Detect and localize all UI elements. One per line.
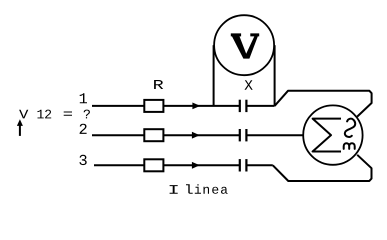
voltmeter V glyph [231, 33, 259, 58]
wire line3 left [94, 164, 240, 166]
wire voltmeter left leg [213, 45, 215, 106]
node 1 label [80, 93, 87, 103]
capacitor X3 [240, 159, 247, 171]
meter 3-phase squiggle (tilde) [345, 119, 355, 137]
node 3 label [79, 155, 86, 165]
energy meter M1 circle [303, 105, 362, 164]
wire line1 right run to meter (diagonal, top, corner) [275, 91, 372, 117]
capacitor X1 [240, 100, 247, 112]
arrow V12 direction (up) [17, 119, 23, 136]
wire line2 right (to meter) [246, 134, 303, 136]
resistor R3 [144, 159, 163, 171]
wire line3 mid [246, 164, 272, 166]
wire line1 mid (capacitor to voltmeter right leg) [246, 105, 274, 107]
meter sigma symbol [313, 119, 341, 152]
label X [245, 80, 253, 90]
current arrow line1 [192, 103, 200, 110]
wire line1 left [92, 105, 240, 107]
current arrow line2 [192, 132, 200, 139]
wire voltmeter right leg [274, 45, 276, 106]
resistor R1 [144, 100, 163, 112]
wire line3 right run to meter (diagonal, bottom, corner) [273, 155, 372, 181]
meter 3-phase squiggle (m shape) [344, 143, 355, 149]
resistor R2 [144, 129, 163, 141]
node 2 label [80, 124, 87, 134]
label V 12 = ? [19, 110, 90, 119]
wire line2 left [92, 134, 240, 136]
voltmeter V1 circle [214, 15, 274, 75]
label I linea [170, 184, 228, 194]
label R [154, 80, 163, 89]
capacitor X2 [240, 129, 247, 141]
current arrow line3 [192, 162, 200, 169]
